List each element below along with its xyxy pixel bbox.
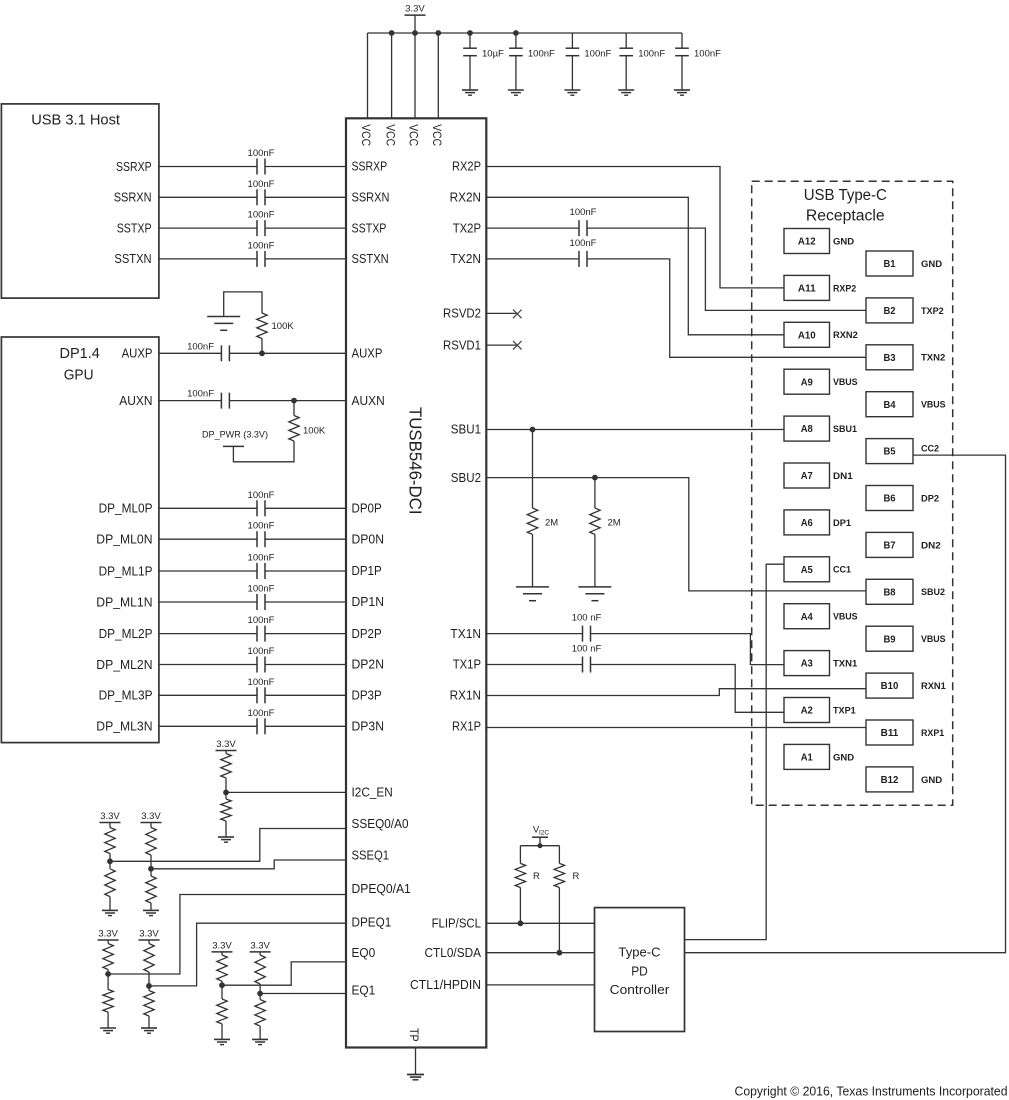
power 3.3V (I2C_EN)	[216, 750, 237, 752]
capacitor 100nF (AUXN)	[220, 393, 222, 409]
svg-text:AUXP: AUXP	[122, 347, 153, 361]
svg-text:B9: B9	[883, 634, 896, 645]
svg-text:SSRXN: SSRXN	[352, 191, 390, 205]
wire DP_ML3N gpu to cap	[159, 725, 257, 727]
svg-text:GND: GND	[833, 236, 854, 247]
block Type-C PD Controller	[595, 908, 685, 1032]
ground bypass cap 2	[508, 89, 524, 91]
svg-text:A6: A6	[801, 518, 814, 529]
resistor 100K (AUXN)	[293, 401, 295, 416]
wire AUXP gpu to cap	[159, 352, 222, 354]
power 3.3V (DPEQ1 divider)	[139, 939, 160, 941]
wire DP_ML3P gpu to cap	[159, 694, 257, 696]
junction SBU2 2M	[592, 475, 598, 481]
wire I2C_EN to IC	[226, 791, 346, 793]
wire EQ1 net	[260, 993, 346, 995]
svg-text:DN2: DN2	[921, 540, 941, 551]
pin box B2 (TXP2)	[866, 298, 913, 323]
capacitor 100nF (TX2P)	[578, 220, 580, 236]
svg-text:GPU: GPU	[64, 367, 94, 384]
junction SBU1 2M	[530, 427, 536, 433]
capacitor 100nF (DP_ML3N)	[256, 718, 258, 734]
ground bypass cap 4	[618, 89, 634, 91]
wire SSRXN host to cap	[159, 196, 257, 198]
resistor upper (DPEQ1 divider)	[148, 940, 150, 944]
svg-text:SSTXP: SSTXP	[352, 221, 387, 235]
wire DP_ML3P cap to IC	[265, 694, 346, 696]
pin box A8 (SBU1)	[784, 416, 830, 441]
capacitor 100nF (SSRXP)	[256, 159, 258, 175]
resistor upper (SSEQ0 divider)	[109, 823, 111, 828]
svg-text:A11: A11	[798, 284, 816, 295]
svg-text:DP2: DP2	[921, 493, 939, 504]
svg-text:SSRXP: SSRXP	[116, 160, 152, 174]
capacitor 100nF bypass 2	[515, 33, 517, 48]
resistor lower (DPEQ1 divider)	[148, 986, 150, 991]
ground TP	[407, 1074, 424, 1076]
svg-text:TX2P: TX2P	[453, 221, 481, 235]
svg-text:SBU1: SBU1	[451, 423, 481, 437]
svg-text:100K: 100K	[303, 426, 326, 437]
pin box B8 (SBU2)	[866, 579, 913, 604]
wire DP_ML1P cap to IC	[265, 570, 346, 572]
wire SSTXP cap to IC	[265, 227, 346, 229]
svg-text:RX2P: RX2P	[452, 160, 481, 174]
svg-text:3.3V: 3.3V	[212, 940, 232, 951]
svg-text:100nF: 100nF	[248, 615, 275, 626]
svg-text:3.3V: 3.3V	[141, 811, 161, 822]
svg-text:100nF: 100nF	[187, 389, 214, 400]
power 3.3V (EQ0 divider)	[212, 951, 233, 953]
wire DPEQ0/A1 net	[108, 895, 346, 975]
pin box A6 (DP1)	[784, 510, 830, 535]
svg-text:DPEQ1: DPEQ1	[352, 915, 392, 929]
junction EQ0 divider	[219, 982, 225, 988]
no-connect RSVD2	[513, 310, 522, 319]
svg-text:AUXP: AUXP	[352, 347, 383, 361]
wire AUXN cap to IC	[229, 400, 346, 402]
svg-text:RXN2: RXN2	[833, 330, 858, 341]
wire DP_ML2P cap to IC	[265, 633, 346, 635]
resistor R (SCL pullup)	[519, 846, 521, 864]
pin box A11 (RXP2)	[784, 275, 830, 300]
svg-text:DN1: DN1	[833, 471, 853, 482]
svg-text:DP1N: DP1N	[352, 595, 385, 609]
svg-text:2M: 2M	[608, 518, 621, 529]
wire RX1N to B10 RXN1	[486, 689, 866, 696]
capacitor 100 nF (TX1N)	[582, 626, 584, 642]
capacitor 100nF bypass 3	[571, 33, 573, 48]
wire SBU2 to B8	[486, 478, 866, 591]
wire TX2P to cap	[486, 227, 579, 229]
ground I2C_EN divider	[218, 836, 234, 838]
svg-text:CC2: CC2	[921, 444, 939, 455]
capacitor 100nF (SSRXN)	[256, 189, 258, 205]
svg-text:Copyright © 2016, Texas Instru: Copyright © 2016, Texas Instruments Inco…	[735, 1085, 1008, 1099]
wire TX2N to cap	[486, 258, 579, 260]
wire DP_ML2N cap to IC	[265, 664, 346, 666]
wire DP_ML0P cap to IC	[265, 507, 346, 509]
svg-text:RX1P: RX1P	[452, 720, 481, 734]
pin box A1 (GND)	[784, 744, 830, 769]
svg-text:VBUS: VBUS	[921, 400, 946, 411]
svg-text:RSVD2: RSVD2	[443, 307, 481, 321]
resistor pullup (I2C_EN)	[225, 751, 227, 754]
svg-text:TXN1: TXN1	[833, 659, 858, 670]
svg-text:100 nF: 100 nF	[572, 613, 602, 624]
power 3.3V (EQ1 divider)	[250, 951, 271, 953]
svg-text:USB 3.1 Host: USB 3.1 Host	[31, 112, 121, 129]
svg-text:USB Type-C: USB Type-C	[804, 187, 887, 204]
svg-text:SSTXN: SSTXN	[352, 252, 389, 266]
svg-text:B10: B10	[881, 681, 899, 692]
power DP_PWR (3.3V)	[223, 445, 244, 447]
svg-text:DP_ML1N: DP_ML1N	[96, 595, 152, 609]
wire CC2 B5 to PD controller	[685, 455, 1006, 953]
wire DP_ML0N gpu to cap	[159, 538, 257, 540]
svg-text:DP_ML0P: DP_ML0P	[99, 502, 153, 516]
svg-text:3.3V: 3.3V	[139, 929, 159, 940]
svg-text:DP0N: DP0N	[352, 532, 385, 546]
svg-text:TP: TP	[407, 1028, 421, 1042]
junction EQ1 divider	[257, 991, 263, 997]
svg-text:3.3V: 3.3V	[250, 940, 270, 951]
wire DP_ML1N gpu to cap	[159, 601, 257, 603]
svg-text:CC1: CC1	[833, 565, 852, 576]
ground EQ1 divider	[252, 1038, 268, 1040]
svg-text:R: R	[533, 871, 540, 882]
capacitor 100nF bypass 5	[681, 33, 683, 48]
power 3.3V (DPEQ0 divider)	[98, 939, 119, 941]
svg-text:EQ1: EQ1	[352, 984, 376, 998]
junction SSEQ1 divider	[148, 866, 154, 872]
wire RX1P to B11 RXP1	[486, 727, 866, 729]
resistor lower (EQ1 divider)	[259, 994, 261, 1000]
wire SSEQ1 net	[151, 860, 346, 869]
svg-text:A1: A1	[801, 753, 814, 764]
junction CTL0/SDA pullup	[557, 950, 563, 956]
pin box A9 (VBUS)	[784, 369, 830, 394]
svg-text:100nF: 100nF	[248, 148, 275, 159]
svg-text:100nF: 100nF	[248, 584, 275, 595]
svg-text:B4: B4	[883, 400, 896, 411]
capacitor 100nF bypass 4	[625, 33, 627, 48]
junction on VCC rail	[513, 30, 519, 36]
svg-text:RX2N: RX2N	[450, 191, 481, 205]
power rail 3.3V symbol	[405, 14, 426, 16]
svg-text:DP_PWR (3.3V): DP_PWR (3.3V)	[202, 430, 268, 441]
wire RSVD2 stub	[486, 312, 517, 314]
wire DP_ML1P gpu to cap	[159, 570, 257, 572]
wire TX1N to cap	[486, 633, 582, 635]
wire RX2P to A11 RXP2	[486, 167, 784, 288]
ground DPEQ0 divider	[100, 1027, 116, 1029]
svg-text:B11: B11	[881, 728, 899, 739]
svg-text:RXP1: RXP1	[921, 728, 945, 739]
wire EQ0 net	[222, 962, 346, 985]
svg-text:100nF: 100nF	[570, 207, 597, 218]
svg-text:100nF: 100nF	[248, 179, 275, 190]
svg-text:A9: A9	[801, 377, 814, 388]
svg-text:Controller: Controller	[610, 982, 670, 997]
svg-text:PD: PD	[631, 964, 648, 979]
svg-text:SSRXP: SSRXP	[352, 160, 388, 174]
junction I2C_EN	[223, 790, 229, 796]
svg-text:100nF: 100nF	[248, 490, 275, 501]
svg-text:DP1.4: DP1.4	[60, 345, 100, 362]
ground AUXP pulldown	[224, 292, 262, 316]
pin box B6 (DP2)	[866, 486, 913, 511]
svg-text:AUXN: AUXN	[352, 394, 385, 408]
pin box A10 (RXN2)	[784, 322, 830, 347]
pin box B10 (RXN1)	[866, 673, 913, 698]
svg-text:CTL1/HPDIN: CTL1/HPDIN	[410, 978, 481, 992]
svg-text:100nF: 100nF	[248, 677, 275, 688]
wire VCC pin 3	[414, 33, 416, 118]
resistor upper (SSEQ1 divider)	[150, 823, 152, 828]
svg-text:A4: A4	[801, 612, 814, 623]
svg-text:DP_ML3P: DP_ML3P	[99, 689, 153, 703]
svg-text:Receptacle: Receptacle	[806, 208, 885, 225]
junction FLIP/SCL pullup	[518, 920, 524, 926]
wire SSRXN cap to IC	[265, 196, 346, 198]
svg-text:EQ0: EQ0	[352, 946, 376, 960]
capacitor 100nF (DP_ML3P)	[256, 687, 258, 703]
svg-text:AUXN: AUXN	[119, 394, 152, 408]
wire AUXN gpu to cap	[159, 400, 222, 402]
junction DPEQ1 divider	[146, 983, 152, 989]
svg-text:A12: A12	[798, 237, 816, 248]
pin box B7 (DN2)	[866, 532, 913, 557]
svg-text:TX1P: TX1P	[453, 658, 481, 672]
svg-text:B2: B2	[883, 306, 896, 317]
svg-text:CTL0/SDA: CTL0/SDA	[425, 946, 482, 960]
svg-text:A10: A10	[798, 330, 816, 341]
svg-text:SBU2: SBU2	[921, 587, 945, 598]
svg-text:DPEQ0/A1: DPEQ0/A1	[352, 882, 411, 896]
svg-text:VBUS: VBUS	[921, 634, 946, 645]
svg-text:DP_ML3N: DP_ML3N	[96, 720, 152, 734]
svg-text:100nF: 100nF	[248, 210, 275, 221]
ground bypass cap 5	[674, 89, 690, 91]
svg-text:B1: B1	[883, 259, 896, 270]
wire FLIP/SCL to PD controller	[486, 922, 594, 924]
svg-text:RXP2: RXP2	[833, 283, 856, 294]
pin box A4 (VBUS)	[784, 604, 830, 629]
wire V_I2C split	[539, 837, 541, 846]
svg-text:B6: B6	[883, 494, 896, 505]
block USB Type-C Receptacle (dashed)	[752, 181, 953, 805]
wire 3.3V to rail	[414, 15, 416, 33]
svg-text:100nF: 100nF	[187, 341, 214, 352]
wire DP_ML1N cap to IC	[265, 601, 346, 603]
svg-text:VCC: VCC	[407, 124, 419, 146]
svg-text:100nF: 100nF	[528, 49, 555, 60]
resistor R (SDA pullup)	[558, 846, 560, 864]
svg-text:VCC: VCC	[430, 124, 442, 146]
pin box A12 (GND)	[784, 229, 830, 254]
svg-text:A5: A5	[801, 565, 814, 576]
capacitor 100nF (TX2N)	[578, 251, 580, 267]
power 3.3V (SSEQ1 divider)	[141, 822, 162, 824]
svg-text:DP1: DP1	[833, 518, 852, 529]
capacitor 100nF (AUXP)	[220, 345, 222, 361]
svg-text:B5: B5	[883, 447, 896, 458]
resistor upper (DPEQ0 divider)	[107, 940, 109, 944]
svg-text:DP1P: DP1P	[352, 564, 382, 578]
svg-text:DP3P: DP3P	[352, 689, 382, 703]
ground DPEQ1 divider	[141, 1027, 157, 1029]
svg-text:TX1N: TX1N	[450, 627, 481, 641]
svg-text:B3: B3	[883, 353, 896, 364]
ground 2M SBU2	[578, 586, 611, 588]
junction AUXN pullup	[291, 398, 297, 404]
wire VCC pin 1	[367, 33, 369, 118]
wire AUXN pullup to DP_PWR	[233, 441, 294, 462]
ground bypass cap 1	[462, 89, 478, 91]
IC U1 TUSB546-DCI	[346, 118, 486, 1047]
resistor 100K (AUXP)	[257, 313, 267, 339]
svg-text:100nF: 100nF	[570, 238, 597, 249]
capacitor 100nF (DP_ML0N)	[256, 531, 258, 547]
svg-text:B12: B12	[881, 775, 899, 786]
power 3.3V (SSEQ0 divider)	[100, 822, 121, 824]
svg-text:RSVD1: RSVD1	[443, 338, 481, 352]
svg-text:Type-C: Type-C	[618, 945, 660, 960]
junction DPEQ0 divider	[105, 971, 111, 977]
svg-text:VCC: VCC	[383, 124, 395, 146]
wire SSEQ0/A0 net	[110, 829, 346, 862]
svg-text:I2C_EN: I2C_EN	[352, 786, 393, 800]
svg-text:B8: B8	[883, 587, 896, 598]
svg-text:100nF: 100nF	[248, 708, 275, 719]
wire AUXP cap to IC	[229, 352, 346, 354]
junction on VCC rail	[412, 30, 418, 36]
svg-text:A2: A2	[801, 706, 814, 717]
svg-text:DP_ML1P: DP_ML1P	[99, 564, 153, 578]
svg-text:100nF: 100nF	[248, 240, 275, 251]
svg-text:3.3V: 3.3V	[98, 929, 118, 940]
svg-text:DP_ML0N: DP_ML0N	[96, 533, 152, 547]
resistor lower (DPEQ0 divider)	[107, 974, 109, 990]
resistor upper (EQ0 divider)	[221, 952, 223, 955]
ground SSEQ1 divider	[143, 909, 159, 911]
resistor 2M (SBU1)	[532, 430, 534, 509]
block DP1.4 GPU	[1, 337, 159, 743]
wire DP_ML0N cap to IC	[265, 538, 346, 540]
ground 2M SBU1	[516, 586, 549, 588]
capacitor 100 nF (TX1P)	[582, 657, 584, 673]
svg-text:DP2P: DP2P	[352, 627, 382, 641]
resistor upper (EQ1 divider)	[259, 952, 261, 955]
svg-text:100nF: 100nF	[248, 521, 275, 532]
resistor lower (SSEQ1 divider)	[150, 869, 152, 876]
pin box B11 (RXP1)	[866, 720, 913, 745]
wire SSRXP host to cap	[159, 166, 257, 168]
svg-text:GND: GND	[921, 775, 942, 786]
svg-text:SSTXP: SSTXP	[117, 221, 152, 235]
pin box A2 (TXP1)	[784, 698, 830, 723]
svg-text:A8: A8	[801, 424, 814, 435]
wire DPEQ1 net	[149, 923, 346, 986]
svg-text:TX2N: TX2N	[450, 252, 481, 266]
junction on VCC rail	[389, 30, 395, 36]
svg-text:VBUS: VBUS	[833, 612, 858, 623]
svg-text:SBU1: SBU1	[833, 424, 858, 435]
pin box B12 (GND)	[866, 767, 913, 792]
pin box A3 (TXN1)	[784, 651, 830, 676]
svg-text:SBU2: SBU2	[451, 471, 481, 485]
wire DP_ML3N cap to IC	[265, 725, 346, 727]
svg-text:A3: A3	[801, 659, 814, 670]
power V_I2C	[532, 836, 548, 838]
svg-text:3.3V: 3.3V	[216, 739, 236, 750]
pin box B5 (CC2)	[866, 439, 913, 464]
wire DP_ML0P gpu to cap	[159, 507, 257, 509]
ground SSEQ0 divider	[102, 909, 118, 911]
svg-text:RXN1: RXN1	[921, 681, 946, 692]
wire DP_ML2N gpu to cap	[159, 664, 257, 666]
wire RX2N to A10 RXN2	[486, 197, 784, 334]
capacitor 100nF (DP_ML2P)	[256, 626, 258, 642]
svg-text:A7: A7	[801, 471, 814, 482]
wire SSTXN cap to IC	[265, 258, 346, 260]
wire TX1P cap to A2 TXP1	[591, 665, 785, 713]
svg-text:DP0P: DP0P	[352, 502, 382, 516]
capacitor 100nF (SSTXN)	[256, 251, 258, 267]
svg-text:SSTXN: SSTXN	[114, 252, 151, 266]
capacitor 100nF (DP_ML2N)	[256, 657, 258, 673]
resistor 2M (SBU2)	[594, 478, 596, 508]
svg-text:3.3V: 3.3V	[100, 811, 120, 822]
svg-text:DP3N: DP3N	[352, 720, 385, 734]
wire SBU1 to A8	[486, 429, 784, 431]
svg-text:100nF: 100nF	[584, 49, 611, 60]
pin box B1 (GND)	[866, 251, 913, 276]
svg-text:SSEQ1: SSEQ1	[352, 849, 390, 863]
wire VCC pin 2	[391, 33, 393, 118]
ground EQ0 divider	[214, 1038, 230, 1040]
svg-text:DP_ML2N: DP_ML2N	[96, 658, 152, 672]
svg-text:VCC: VCC	[359, 124, 371, 146]
block USB 3.1 Host	[1, 104, 159, 298]
capacitor 100nF (DP_ML0P)	[256, 500, 258, 516]
ground bypass cap 3	[564, 89, 580, 91]
svg-text:TUSB546-DCI: TUSB546-DCI	[406, 407, 426, 515]
wire TX1P to cap	[486, 664, 582, 666]
pin box B4 (VBUS)	[866, 392, 913, 417]
svg-text:GND: GND	[833, 752, 854, 763]
capacitor 100nF (DP_ML1N)	[256, 594, 258, 610]
wire TX2N cap to B3 TXN2	[587, 259, 866, 357]
junction AUXP pulldown	[259, 350, 265, 356]
svg-text:SSRXN: SSRXN	[114, 191, 152, 205]
wire CC1 A5 to PD controller	[685, 564, 785, 939]
junction on VCC rail	[435, 30, 441, 36]
svg-text:R: R	[573, 871, 580, 882]
svg-text:RX1N: RX1N	[450, 689, 481, 703]
svg-text:DP_ML2P: DP_ML2P	[99, 627, 153, 641]
svg-text:VBUS: VBUS	[833, 377, 858, 388]
junction V_I2C	[538, 843, 543, 848]
wire DP_ML2P gpu to cap	[159, 633, 257, 635]
svg-text:TXP2: TXP2	[921, 306, 944, 317]
wire RSVD1 stub	[486, 344, 517, 346]
svg-text:2M: 2M	[545, 518, 558, 529]
svg-text:100nF: 100nF	[694, 49, 721, 60]
svg-text:B7: B7	[883, 541, 896, 552]
pin box B3 (TXN2)	[866, 345, 913, 370]
